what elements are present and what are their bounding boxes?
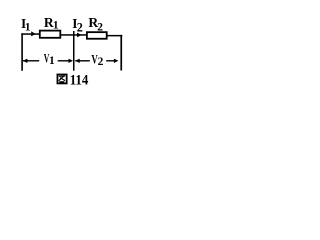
V1 dimension line right part (58, 60, 69, 61)
label I1 (21, 16, 31, 34)
label I2 (72, 16, 83, 35)
label R2 (88, 15, 103, 34)
caption hanzi "tu" (figure) (57, 75, 66, 84)
wire middle segment (60, 34, 88, 36)
current arrow I2 (77, 33, 82, 38)
svg-text:2: 2 (98, 56, 104, 68)
V1 left arrowhead (23, 59, 28, 63)
label R1 (44, 15, 59, 31)
current arrow I1 (31, 31, 36, 36)
wire right segment (106, 35, 122, 37)
V2 dimension line left part (75, 60, 90, 61)
left extension tick (21, 33, 23, 71)
V1 dimension line left part (23, 60, 39, 61)
svg-text:2: 2 (97, 22, 103, 34)
V2 right arrowhead (114, 59, 119, 63)
V2 left arrowhead (75, 59, 80, 63)
resistor R2 (87, 32, 107, 39)
svg-text:2: 2 (77, 21, 83, 35)
svg-text:1: 1 (49, 55, 55, 67)
svg-text:114: 114 (70, 73, 89, 88)
V2 dimension line right part (106, 60, 115, 61)
right extension tick (120, 35, 122, 71)
middle extension tick (73, 31, 75, 71)
label V2 (91, 52, 103, 68)
label V1 (44, 52, 55, 67)
svg-text:1: 1 (53, 19, 59, 31)
svg-text:1: 1 (25, 21, 31, 34)
resistor R1 (40, 31, 61, 38)
V1 right arrowhead (69, 59, 74, 63)
wire left segment (21, 33, 40, 35)
